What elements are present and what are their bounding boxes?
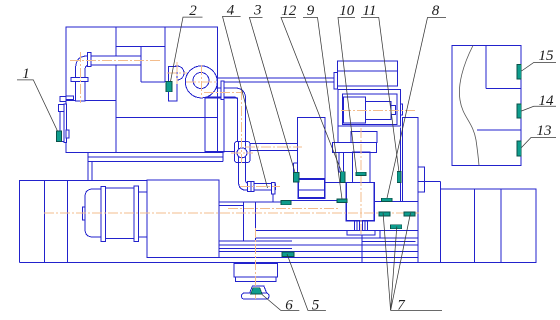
svg-text:10: 10 bbox=[339, 3, 355, 19]
svg-text:5: 5 bbox=[312, 298, 320, 314]
svg-text:1: 1 bbox=[22, 66, 30, 82]
svg-text:8: 8 bbox=[432, 3, 440, 19]
svg-text:14: 14 bbox=[539, 93, 555, 109]
svg-text:4: 4 bbox=[227, 3, 235, 19]
svg-text:2: 2 bbox=[189, 3, 197, 19]
svg-text:9: 9 bbox=[307, 3, 315, 19]
svg-text:15: 15 bbox=[539, 48, 555, 64]
svg-text:12: 12 bbox=[281, 3, 297, 19]
svg-text:6: 6 bbox=[285, 298, 293, 314]
svg-text:3: 3 bbox=[253, 3, 262, 19]
svg-text:11: 11 bbox=[363, 3, 377, 19]
svg-text:13: 13 bbox=[537, 123, 552, 139]
